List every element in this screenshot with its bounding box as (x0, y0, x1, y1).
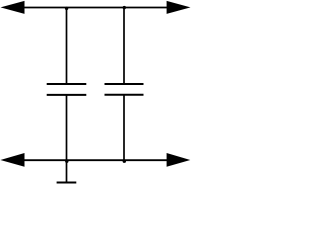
capacitor C1 (47, 84, 87, 95)
node bottom-left junction (65, 160, 68, 163)
node top-left junction (65, 7, 68, 10)
arrow top-right (167, 1, 191, 14)
wire left branch lower (66, 95, 68, 183)
ground (57, 182, 77, 184)
wire right branch upper (123, 8, 125, 85)
wire bottom rail (23, 159, 168, 161)
node bottom-right junction (123, 160, 126, 163)
wire top rail (23, 7, 168, 9)
arrow top-left (1, 1, 25, 14)
capacitor C2 (105, 84, 144, 95)
arrow bottom-right (167, 153, 191, 167)
node top-right junction (123, 6, 126, 9)
arrow bottom-left (0, 153, 24, 167)
wire left branch upper (66, 8, 68, 85)
wire right branch lower (123, 95, 125, 160)
